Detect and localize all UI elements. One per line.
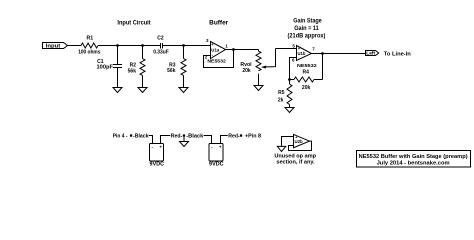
svg-text:R5: R5 bbox=[278, 90, 285, 96]
svg-text:C2: C2 bbox=[157, 36, 164, 42]
svg-text:R4: R4 bbox=[302, 70, 309, 76]
port tag Input bbox=[43, 43, 68, 49]
op-amp U1b bbox=[297, 46, 312, 61]
svg-text:100pF: 100pF bbox=[97, 64, 114, 70]
section label: Gain Stage bbox=[288, 17, 326, 39]
svg-text:NE5532: NE5532 bbox=[207, 58, 226, 63]
svg-text:NE5532 Buffer with Gain Stage: NE5532 Buffer with Gain Stage (preamp) bbox=[359, 154, 468, 160]
node: U1b output junction bbox=[321, 52, 324, 55]
node square (mid supply tie) bbox=[183, 134, 185, 136]
svg-text:Buffer: Buffer bbox=[209, 19, 229, 26]
battery B1 9VDC bbox=[150, 144, 164, 162]
section label: Buffer bbox=[209, 19, 229, 26]
label: Red- bbox=[228, 134, 240, 140]
svg-text:Red-: Red- bbox=[171, 134, 183, 140]
port tag Left bbox=[366, 51, 379, 56]
wire U1b pin6 to feedback node bbox=[290, 58, 297, 80]
wire U1a pin2 feedback loop bbox=[204, 50, 234, 68]
svg-text:20k: 20k bbox=[242, 68, 251, 74]
svg-text:+: + bbox=[219, 145, 222, 150]
svg-text:56k: 56k bbox=[167, 68, 176, 74]
svg-text:U1b: U1b bbox=[298, 51, 306, 56]
svg-text:0.33uF: 0.33uF bbox=[153, 50, 169, 56]
section label: Input Circuit bbox=[117, 19, 150, 26]
wire battery B1 + to Red bbox=[161, 136, 171, 144]
ground at supply midpoint bbox=[183, 137, 185, 142]
svg-text:(21dB approx): (21dB approx) bbox=[288, 33, 326, 40]
node square (pin4 tie) bbox=[130, 134, 132, 136]
ground under R3 bbox=[179, 88, 188, 93]
capacitor C1 100pF bbox=[117, 46, 119, 65]
svg-text:9VDC: 9VDC bbox=[150, 162, 165, 168]
ground under C1 bbox=[113, 88, 122, 93]
node square (pin8 tie) bbox=[240, 134, 242, 136]
svg-text:2k: 2k bbox=[278, 98, 284, 104]
wire C2 to U1a pin 3 bbox=[163, 45, 211, 47]
svg-text:-Black: -Black bbox=[186, 134, 203, 140]
capacitor C2 0.33uF bbox=[160, 43, 162, 49]
resistor R2 56k bbox=[142, 46, 144, 59]
node: R4/R5/pin6 junction bbox=[288, 78, 291, 81]
label: Red- bbox=[171, 134, 183, 140]
svg-text:Input: Input bbox=[46, 44, 61, 50]
wiper of Rvol bbox=[264, 49, 276, 68]
resistor R5 2k bbox=[289, 80, 291, 85]
node: C1 junction bbox=[116, 44, 119, 47]
node: R3 junction bbox=[182, 44, 185, 47]
potentiometer Rvol 20k bbox=[256, 50, 261, 71]
ground under R2 bbox=[138, 88, 147, 93]
resistor R1 100 ohms bbox=[81, 43, 98, 48]
ground under R5 bbox=[285, 108, 294, 113]
svg-text:U2b: U2b bbox=[295, 139, 304, 144]
wire U2b feedback (output to - input) bbox=[289, 141, 312, 150]
ground at U2b input bbox=[277, 146, 286, 151]
wire battery B2 + to Red bbox=[221, 136, 228, 144]
svg-text:U1a: U1a bbox=[211, 48, 220, 53]
svg-text:56k: 56k bbox=[128, 68, 137, 74]
svg-text:Gain Stage: Gain Stage bbox=[293, 17, 322, 24]
op-amp U1a bbox=[211, 42, 226, 59]
wire R1 to C2 bbox=[98, 45, 161, 47]
svg-text:Left: Left bbox=[366, 51, 375, 57]
label: +Pin 8 bbox=[245, 134, 261, 140]
wire U1b output bbox=[312, 53, 366, 55]
svg-text:section, if any.: section, if any. bbox=[276, 160, 315, 166]
wire wiper to U1b pin 5 bbox=[276, 48, 297, 50]
svg-text:-Black: -Black bbox=[133, 134, 149, 140]
svg-text:Rvol: Rvol bbox=[240, 62, 252, 68]
wire Black to battery B1 bbox=[149, 136, 153, 144]
resistor R4 20k (feedback) bbox=[290, 79, 295, 81]
svg-text:July 2014 - bentsnake.com: July 2014 - bentsnake.com bbox=[377, 160, 450, 166]
label: unused note bbox=[274, 154, 316, 166]
wire input tag to R1 bbox=[68, 45, 82, 47]
label: -Black bbox=[186, 134, 203, 140]
svg-text:100 ohms: 100 ohms bbox=[78, 50, 100, 56]
svg-text:+Pin 8: +Pin 8 bbox=[245, 134, 261, 140]
svg-text:20k: 20k bbox=[302, 85, 311, 91]
node: U1a output junction bbox=[232, 48, 235, 51]
label: -Black bbox=[133, 134, 149, 140]
svg-text:Input Circuit: Input Circuit bbox=[117, 19, 150, 26]
node: R2 junction bbox=[141, 44, 144, 47]
ground under Rvol bbox=[254, 86, 263, 91]
title block box bbox=[357, 151, 471, 168]
wire Black to battery B2 bbox=[204, 136, 212, 144]
svg-text:Pin 4 -: Pin 4 - bbox=[113, 134, 128, 140]
battery B2 9VDC bbox=[209, 144, 223, 162]
svg-text:Red-: Red- bbox=[228, 134, 240, 140]
svg-text:9VDC: 9VDC bbox=[209, 162, 224, 168]
svg-text:R1: R1 bbox=[86, 35, 93, 41]
op-amp U2b (unused) bbox=[294, 134, 310, 147]
svg-text:Gain = 11: Gain = 11 bbox=[294, 25, 319, 32]
wire U1a output bbox=[226, 49, 259, 51]
resistor R3 56k bbox=[183, 46, 185, 59]
svg-text:NE5532: NE5532 bbox=[297, 63, 317, 68]
wire U2b + input to ground bbox=[282, 137, 294, 147]
svg-text:To Line-In: To Line-In bbox=[384, 51, 412, 57]
svg-text:+: + bbox=[159, 145, 162, 150]
power rail label: Pin 4 bbox=[113, 134, 128, 140]
